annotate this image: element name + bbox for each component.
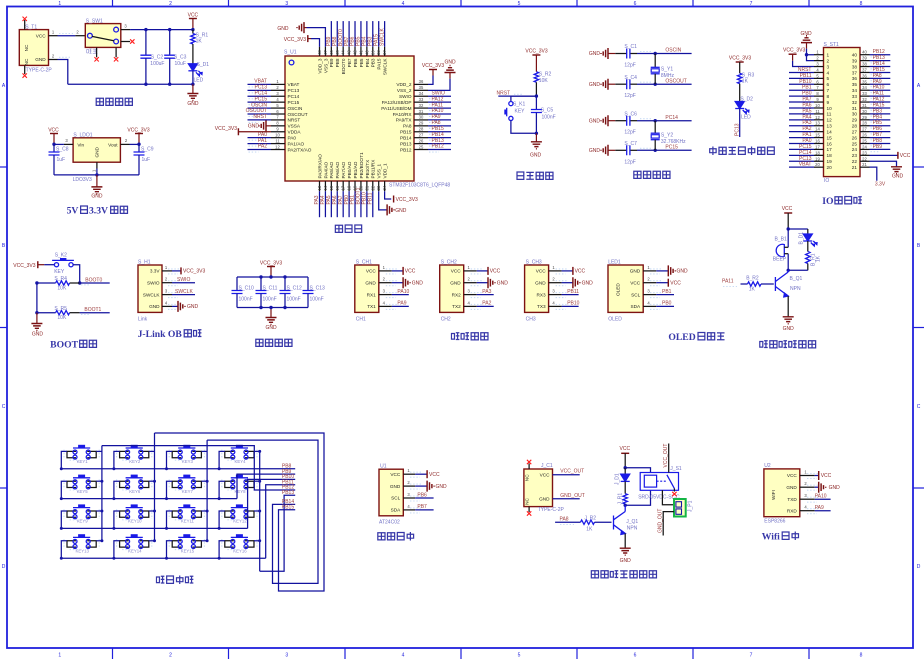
wire net PC13 IO pin 19 bbox=[789, 156, 814, 162]
svg-text:PA8: PA8 bbox=[403, 124, 412, 129]
wire net PA3 S_CH2 pin3 bbox=[477, 289, 494, 295]
svg-text:48: 48 bbox=[317, 50, 322, 55]
svg-text:J_Q1: J_Q1 bbox=[626, 519, 638, 525]
svg-text:2: 2 bbox=[52, 53, 55, 58]
svg-text:24: 24 bbox=[382, 185, 387, 190]
filter bottom rail wire bbox=[237, 307, 308, 309]
svg-text:PA10: PA10 bbox=[815, 494, 827, 500]
LED S_D1 bbox=[188, 62, 209, 86]
svg-text:100nF: 100nF bbox=[239, 297, 253, 303]
svg-text:TX2: TX2 bbox=[452, 304, 461, 309]
relay J_S1 SRD-05VDC-SL-C bbox=[638, 466, 682, 501]
wire net PA12 IO pin 32 bbox=[870, 97, 891, 105]
svg-text:37: 37 bbox=[852, 70, 858, 75]
svg-text:B_B1: B_B1 bbox=[775, 237, 787, 243]
svg-text:5V: 5V bbox=[67, 206, 79, 217]
svg-text:S_C10: S_C10 bbox=[239, 285, 255, 291]
power port VCC alarm bbox=[782, 206, 793, 229]
wire net PB1 MCU bottom pin 19 bbox=[350, 191, 356, 217]
push button KEY10 bbox=[112, 504, 156, 530]
svg-text:12: 12 bbox=[827, 118, 833, 123]
svg-text:1: 1 bbox=[552, 265, 555, 270]
wire net PB12 MCU right pin 25 bbox=[428, 144, 451, 152]
svg-text:21: 21 bbox=[364, 185, 369, 190]
svg-text:LED: LED bbox=[741, 115, 751, 121]
push button KEY7 bbox=[165, 475, 209, 501]
svg-text:PA10: PA10 bbox=[397, 289, 409, 295]
capacitor S_C12 100nF bbox=[280, 275, 303, 309]
svg-text:PB2/BOOT1: PB2/BOOT1 bbox=[359, 152, 364, 178]
wire net PB13 MCU right pin 26 bbox=[428, 138, 451, 146]
svg-text:8: 8 bbox=[827, 94, 830, 99]
svg-text:2: 2 bbox=[647, 277, 650, 282]
resistor S_R5 10K bbox=[35, 283, 79, 321]
LED S_D2 bbox=[735, 97, 753, 121]
ground GND reset bbox=[530, 133, 542, 158]
svg-text:J_R1: J_R1 bbox=[618, 493, 624, 505]
wire net PA5 MCU bottom pin 15 bbox=[326, 191, 332, 217]
svg-text:VCC: VCC bbox=[630, 280, 641, 285]
svg-text:29: 29 bbox=[852, 118, 858, 123]
svg-text:14: 14 bbox=[815, 127, 820, 132]
svg-text:29: 29 bbox=[419, 121, 424, 126]
svg-text:27: 27 bbox=[419, 132, 424, 137]
svg-text:14: 14 bbox=[323, 185, 328, 190]
resistor S_R2 10K bbox=[534, 72, 551, 97]
svg-text:GND: GND bbox=[412, 280, 424, 286]
power port VCC_3V3 on MCU VDD_2 bbox=[422, 63, 444, 85]
crystal S_Y2 32.768KHz bbox=[651, 121, 686, 151]
svg-text:NPN: NPN bbox=[790, 286, 801, 292]
wire net PA0 IO pin 16 bbox=[789, 138, 814, 144]
wire net PA5 IO pin 11 bbox=[789, 108, 814, 114]
svg-text:1: 1 bbox=[276, 79, 279, 84]
svg-text:J-Link OB: J-Link OB bbox=[138, 329, 183, 340]
svg-text:30: 30 bbox=[862, 109, 867, 114]
svg-text:6: 6 bbox=[634, 653, 637, 659]
svg-text:PC14: PC14 bbox=[665, 115, 678, 121]
svg-text:PB4: PB4 bbox=[365, 58, 370, 67]
svg-text:S_SW1: S_SW1 bbox=[86, 19, 103, 25]
svg-text:12pF: 12pF bbox=[624, 159, 635, 165]
svg-text:A: A bbox=[917, 83, 921, 89]
wire net VCC_OUT J_C1 pin1 bbox=[553, 469, 585, 475]
wire net PB3 MCU top pin 39 bbox=[367, 21, 373, 47]
svg-text:10K: 10K bbox=[57, 315, 67, 321]
svg-text:S_C7: S_C7 bbox=[624, 141, 637, 147]
svg-text:ESP8266: ESP8266 bbox=[764, 519, 785, 525]
push button KEY13 bbox=[60, 534, 104, 560]
svg-text:VCC: VCC bbox=[900, 153, 911, 159]
svg-text:VCC: VCC bbox=[575, 269, 586, 275]
keyboard net labels PB8-PB15 bbox=[282, 464, 294, 511]
wire net PB11 MCU bottom pin 22 bbox=[367, 191, 373, 217]
svg-text:Vin: Vin bbox=[77, 142, 84, 147]
svg-text:8: 8 bbox=[276, 121, 279, 126]
capacitor S_C6 12pF bbox=[615, 111, 637, 135]
svg-text:4: 4 bbox=[383, 300, 386, 305]
svg-text:16: 16 bbox=[815, 139, 820, 144]
svg-text:OSCOUT: OSCOUT bbox=[665, 78, 686, 84]
wire net PA9 MCU right pin 30 bbox=[428, 114, 451, 122]
svg-text:GND: GND bbox=[91, 194, 103, 200]
title 继电器控制电路 bbox=[591, 571, 656, 578]
svg-text:2: 2 bbox=[804, 481, 807, 486]
svg-text:VCC_3V3: VCC_3V3 bbox=[525, 49, 547, 55]
svg-text:WIFI: WIFI bbox=[771, 490, 776, 500]
ground GND BOOT bbox=[31, 313, 43, 338]
svg-text:1: 1 bbox=[165, 265, 168, 270]
svg-text:11: 11 bbox=[827, 112, 832, 117]
push button KEY11 bbox=[165, 504, 209, 530]
svg-text:NC: NC bbox=[24, 44, 29, 51]
svg-text:VCC: VCC bbox=[540, 472, 551, 477]
svg-text:PA9/TX: PA9/TX bbox=[396, 118, 413, 123]
svg-text:S_H1: S_H1 bbox=[138, 259, 151, 265]
svg-text:VBAT: VBAT bbox=[799, 162, 812, 168]
svg-text:33: 33 bbox=[852, 94, 858, 99]
svg-text:2: 2 bbox=[468, 277, 471, 282]
svg-text:3: 3 bbox=[804, 493, 807, 498]
svg-text:NC: NC bbox=[525, 498, 530, 505]
svg-text:KEY13: KEY13 bbox=[76, 548, 90, 553]
resistor S_R3 1K bbox=[738, 73, 755, 102]
LDO pin 2 wire bbox=[120, 138, 139, 145]
push button KEY14 bbox=[112, 534, 156, 560]
svg-text:PC14: PC14 bbox=[288, 94, 300, 99]
svg-text:PB15: PB15 bbox=[400, 130, 412, 135]
svg-text:PA3/RX/AO: PA3/RX/AO bbox=[317, 154, 322, 179]
svg-text:PC13: PC13 bbox=[734, 123, 740, 136]
svg-text:TX3: TX3 bbox=[537, 304, 546, 309]
svg-text:KEY2: KEY2 bbox=[129, 459, 141, 464]
svg-text:AT24C02: AT24C02 bbox=[379, 520, 400, 526]
resistor B_R2 1K alarm base bbox=[746, 275, 774, 292]
wire VCC rail top bbox=[130, 29, 193, 31]
title 复位电路 bbox=[517, 172, 553, 179]
svg-text:SCL: SCL bbox=[391, 496, 401, 501]
wire net SWIO MCU right pin 34 bbox=[428, 90, 451, 98]
svg-text:VCC: VCC bbox=[405, 269, 416, 275]
svg-text:KEY4: KEY4 bbox=[235, 459, 247, 464]
connector S_CH1 bbox=[355, 259, 398, 322]
IC U1 AT24C02 bbox=[379, 464, 422, 526]
svg-text:NC: NC bbox=[525, 474, 530, 481]
svg-text:OSCIN: OSCIN bbox=[665, 48, 681, 54]
svg-text:VDD_1: VDD_1 bbox=[383, 163, 388, 179]
svg-text:RX1: RX1 bbox=[367, 292, 377, 297]
svg-text:32: 32 bbox=[862, 97, 867, 102]
resistor J_R1 relay bbox=[618, 481, 628, 505]
ground GND IO pin22 bbox=[870, 161, 904, 179]
svg-text:1: 1 bbox=[52, 30, 55, 35]
no-ERC marks on T1 bbox=[23, 17, 27, 78]
svg-text:100nF: 100nF bbox=[263, 297, 277, 303]
svg-text:3: 3 bbox=[647, 289, 650, 294]
ground GND power circuit bbox=[187, 84, 199, 107]
svg-text:KEY16: KEY16 bbox=[233, 548, 247, 553]
no-ERC relay NO pin bbox=[672, 489, 676, 497]
keyboard net route PB10 bbox=[248, 479, 296, 528]
svg-text:S_C6: S_C6 bbox=[624, 111, 637, 117]
svg-text:C: C bbox=[2, 404, 6, 410]
wire net PC13 MCU left pin 2 bbox=[248, 85, 272, 93]
diode J_D1 relay flyback bbox=[615, 466, 630, 485]
ground GND OLED pin1 bbox=[656, 265, 688, 276]
svg-text:S_U1: S_U1 bbox=[284, 50, 297, 56]
svg-text:7: 7 bbox=[750, 653, 753, 659]
power port VCC S_CH3 pin1 bbox=[562, 267, 586, 275]
svg-text:2: 2 bbox=[76, 30, 79, 35]
wire net PB4 MCU top pin 40 bbox=[362, 21, 368, 47]
svg-text:28: 28 bbox=[862, 121, 867, 126]
title IO拓展口 bbox=[822, 196, 862, 207]
svg-text:D: D bbox=[917, 564, 921, 570]
svg-text:3: 3 bbox=[468, 289, 471, 294]
svg-text:46: 46 bbox=[329, 50, 334, 55]
wire net SWIO bbox=[172, 277, 195, 283]
svg-text:34: 34 bbox=[419, 91, 424, 96]
keyboard net route PB15 bbox=[155, 433, 325, 591]
wire net OSCOUT MCU left pin 6 bbox=[246, 108, 271, 116]
svg-text:39: 39 bbox=[852, 58, 858, 63]
svg-text:2: 2 bbox=[383, 277, 386, 282]
wire net PA3 IO pin 13 bbox=[789, 120, 814, 126]
svg-text:PA10/RX: PA10/RX bbox=[393, 112, 413, 117]
svg-text:21: 21 bbox=[852, 165, 858, 170]
svg-text:S_CH3: S_CH3 bbox=[526, 259, 542, 265]
svg-text:KEY7: KEY7 bbox=[182, 489, 194, 494]
svg-text:S_ST1: S_ST1 bbox=[824, 42, 840, 48]
switch unused pin stubs with no-ERC bbox=[94, 39, 134, 61]
wire net PB5 MCU top pin 41 bbox=[356, 21, 362, 47]
svg-text:OSCOUT: OSCOUT bbox=[288, 112, 308, 117]
svg-text:2: 2 bbox=[827, 58, 830, 63]
wire and net label BOOT0 bbox=[80, 277, 110, 285]
ground GND S_CH3 pin2 bbox=[562, 277, 594, 288]
capacitor S_C3 10uF bbox=[164, 28, 186, 86]
wire net PA1 MCU left pin 11 bbox=[248, 138, 272, 146]
svg-text:18: 18 bbox=[827, 153, 833, 158]
wire net PB6 IO pin 27 bbox=[870, 126, 891, 134]
wire net PB0 MCU bottom pin 18 bbox=[344, 191, 350, 217]
ground GND on MCU VSS_1 bottom bbox=[379, 191, 407, 215]
wire net PA2 S_CH2 pin4 bbox=[477, 301, 494, 307]
MCU pin stubs right bbox=[414, 79, 428, 149]
svg-text:26: 26 bbox=[852, 135, 858, 140]
svg-text:S_K1: S_K1 bbox=[513, 102, 525, 108]
svg-text:10K: 10K bbox=[57, 285, 67, 291]
svg-text:VCC_3V3: VCC_3V3 bbox=[396, 197, 418, 203]
wire net VCC_OUT relay common bbox=[663, 444, 669, 473]
LDO pin 3 wire bbox=[54, 138, 73, 145]
svg-text:PB1: PB1 bbox=[662, 289, 672, 295]
svg-text:PB13: PB13 bbox=[282, 490, 294, 496]
keyboard net route PB13 bbox=[260, 495, 296, 571]
wire net PA10 MCU right pin 31 bbox=[428, 108, 451, 116]
svg-text:4: 4 bbox=[827, 70, 830, 75]
ground GND U1 pin2 bbox=[415, 481, 447, 492]
svg-text:2: 2 bbox=[552, 277, 555, 282]
wire net PC15 MCU left pin 4 bbox=[248, 96, 272, 104]
svg-text:3: 3 bbox=[827, 64, 830, 69]
capacitor S_C10 100nF bbox=[232, 277, 255, 308]
ground GND LDO bbox=[91, 175, 103, 200]
svg-text:BOOT0: BOOT0 bbox=[341, 58, 346, 74]
svg-text:PB12: PB12 bbox=[432, 144, 444, 150]
wire net PB3 IO pin 30 bbox=[870, 108, 891, 116]
transistor B_Q1 NPN bbox=[775, 270, 802, 297]
svg-text:PB11: PB11 bbox=[567, 289, 579, 295]
svg-text:PB0/AO: PB0/AO bbox=[347, 161, 352, 178]
MCU pin stubs bottom bbox=[317, 181, 387, 191]
svg-text:33: 33 bbox=[862, 91, 867, 96]
svg-text:IO: IO bbox=[822, 196, 834, 207]
wire net PA7 IO pin 9 bbox=[789, 97, 814, 103]
svg-text:GND: GND bbox=[149, 304, 160, 309]
svg-text:PA0: PA0 bbox=[288, 135, 297, 140]
svg-text:8: 8 bbox=[816, 91, 819, 96]
ground GND for S_C4 bbox=[589, 79, 615, 90]
svg-text:Vout: Vout bbox=[108, 142, 118, 147]
svg-text:21: 21 bbox=[862, 162, 867, 167]
svg-text:4: 4 bbox=[407, 504, 410, 509]
svg-text:1K: 1K bbox=[196, 39, 203, 45]
svg-text:28: 28 bbox=[419, 127, 424, 132]
svg-text:29: 29 bbox=[862, 115, 867, 120]
svg-text:SDA: SDA bbox=[631, 304, 642, 309]
svg-text:PA1/AO: PA1/AO bbox=[288, 141, 305, 146]
svg-text:PA15: PA15 bbox=[377, 58, 382, 70]
svg-text:1K: 1K bbox=[816, 255, 822, 262]
capacitor S_C11 100nF bbox=[256, 275, 278, 309]
svg-text:GND: GND bbox=[539, 497, 550, 502]
IO header pin stubs left bbox=[814, 50, 824, 167]
svg-text:RXD: RXD bbox=[787, 508, 798, 513]
svg-text:45: 45 bbox=[335, 50, 340, 55]
svg-text:15: 15 bbox=[827, 135, 833, 140]
wire net PB0 IO pin 8 bbox=[789, 91, 814, 97]
svg-text:KEY10: KEY10 bbox=[128, 519, 142, 524]
svg-text:D: D bbox=[2, 564, 6, 570]
svg-text:J_P1: J_P1 bbox=[688, 500, 694, 512]
wire net PA9 IO pin 35 bbox=[870, 79, 891, 87]
svg-text:GND: GND bbox=[677, 269, 689, 275]
svg-text:5: 5 bbox=[816, 73, 819, 78]
connector LED1 OLED display bbox=[608, 259, 662, 322]
svg-text:44: 44 bbox=[341, 50, 346, 55]
ground GND filter bbox=[265, 306, 277, 331]
svg-text:TX1: TX1 bbox=[367, 304, 376, 309]
wire net PA10 U2 TXD bbox=[815, 494, 831, 500]
svg-text:OLED: OLED bbox=[668, 332, 695, 343]
connector J_C1 TYPE-C-2P relay bbox=[524, 460, 565, 516]
svg-text:SWIO: SWIO bbox=[147, 280, 160, 285]
svg-text:VCC_OUT: VCC_OUT bbox=[560, 469, 584, 475]
svg-text:3: 3 bbox=[285, 1, 288, 7]
power port VCC U2 pin1 bbox=[815, 471, 832, 480]
svg-text:34: 34 bbox=[862, 85, 867, 90]
svg-text:47: 47 bbox=[323, 50, 328, 55]
svg-text:VCC_3V3: VCC_3V3 bbox=[260, 261, 282, 267]
power port VCC bbox=[188, 13, 199, 32]
capacitor S_C13 100nF bbox=[303, 277, 326, 308]
svg-text:4: 4 bbox=[402, 653, 405, 659]
svg-text:S_D1: S_D1 bbox=[197, 62, 210, 68]
svg-text:10K: 10K bbox=[539, 78, 549, 84]
svg-text:B_R2: B_R2 bbox=[746, 275, 759, 281]
svg-text:S_C13: S_C13 bbox=[310, 285, 326, 291]
svg-text:3: 3 bbox=[552, 289, 555, 294]
power port VCC_3V3 IO header pin3 bbox=[783, 48, 814, 67]
wire net PB1 OLED SCL bbox=[656, 289, 674, 295]
power port VCC OLED pin2 bbox=[656, 279, 681, 287]
title 5V转3.3V电路 bbox=[67, 206, 128, 217]
svg-text:SWCLK: SWCLK bbox=[379, 28, 385, 46]
svg-text:3.3V: 3.3V bbox=[150, 269, 161, 274]
svg-text:B: B bbox=[917, 243, 921, 249]
wire net PA4 MCU bottom pin 14 bbox=[320, 191, 326, 217]
svg-text:37: 37 bbox=[382, 50, 387, 55]
svg-text:23: 23 bbox=[376, 185, 381, 190]
svg-text:23: 23 bbox=[862, 150, 867, 155]
wire net PA11 MCU right pin 32 bbox=[428, 102, 451, 110]
svg-text:22: 22 bbox=[852, 159, 858, 164]
svg-text:4: 4 bbox=[276, 97, 279, 102]
svg-text:24: 24 bbox=[852, 147, 858, 152]
svg-text:35: 35 bbox=[862, 79, 867, 84]
wire GND rail bottom bbox=[68, 83, 193, 85]
svg-text:VCC_3V3: VCC_3V3 bbox=[127, 128, 149, 134]
svg-text:PB13: PB13 bbox=[400, 141, 412, 146]
ground GND U2 pin2 bbox=[815, 482, 840, 493]
svg-text:39: 39 bbox=[862, 56, 867, 61]
svg-text:10uF: 10uF bbox=[175, 61, 186, 67]
wire net PA2 IO pin 14 bbox=[789, 126, 814, 132]
svg-text:1: 1 bbox=[827, 53, 830, 58]
svg-text:RX3: RX3 bbox=[536, 292, 546, 297]
svg-text:10: 10 bbox=[827, 106, 833, 111]
title 主芯片 bbox=[335, 225, 361, 232]
svg-text:LDO3V3: LDO3V3 bbox=[73, 177, 92, 183]
svg-text:VCC_3V3: VCC_3V3 bbox=[183, 269, 205, 275]
svg-text:18: 18 bbox=[347, 185, 352, 190]
title 矩阵键盘 bbox=[156, 575, 193, 584]
wire net SWCLK MCU top pin 37 bbox=[379, 21, 385, 47]
svg-text:28: 28 bbox=[852, 124, 858, 129]
power port VCC_3V3 reset bbox=[525, 49, 547, 72]
svg-text:SWCLK: SWCLK bbox=[383, 58, 388, 76]
resistor S_R1 1K bbox=[191, 30, 209, 64]
svg-text:KEY15: KEY15 bbox=[181, 548, 195, 553]
svg-text:26: 26 bbox=[419, 138, 424, 143]
matrix keyboard column bus wires bbox=[102, 433, 260, 571]
svg-text:S_CH1: S_CH1 bbox=[356, 259, 372, 265]
svg-text:PB9: PB9 bbox=[873, 144, 883, 150]
push button KEY5 bbox=[60, 475, 104, 501]
svg-text:VCC: VCC bbox=[536, 269, 547, 274]
wire net PA8 IO pin 36 bbox=[870, 73, 891, 81]
terminal block J_P1 bbox=[674, 499, 694, 517]
svg-text:GND: GND bbox=[630, 269, 641, 274]
svg-text:3: 3 bbox=[816, 62, 819, 67]
svg-text:16: 16 bbox=[827, 141, 833, 146]
svg-text:PB8: PB8 bbox=[335, 58, 340, 67]
svg-text:GND: GND bbox=[892, 174, 904, 180]
svg-text:27: 27 bbox=[862, 127, 867, 132]
svg-text:12pF: 12pF bbox=[624, 130, 635, 136]
svg-text:A: A bbox=[2, 83, 6, 89]
